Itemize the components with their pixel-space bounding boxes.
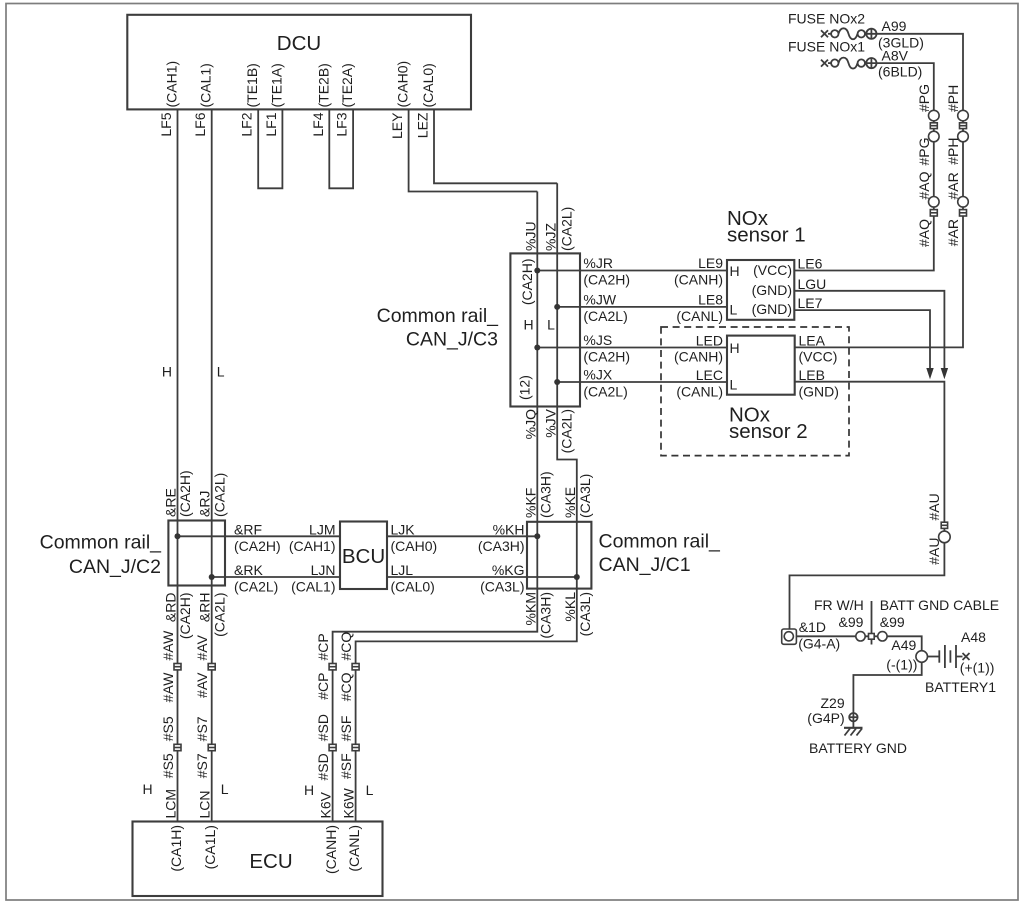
svg-text:%JX: %JX	[583, 367, 612, 383]
svg-text:(CA2H): (CA2H)	[583, 349, 630, 365]
svg-text:#PH: #PH	[945, 85, 961, 112]
svg-text:%JQ: %JQ	[523, 409, 539, 439]
svg-text:%KE: %KE	[562, 487, 578, 518]
pin K6W label	[341, 787, 363, 871]
svg-text:FUSE NOx1: FUSE NOx1	[788, 39, 865, 55]
svg-text:sensor 2: sensor 2	[729, 420, 808, 443]
svg-text:H: H	[142, 781, 152, 797]
svg-text:L: L	[217, 364, 225, 380]
svg-text:(CA2L): (CA2L)	[559, 207, 575, 251]
svg-text:sensor 1: sensor 1	[727, 224, 806, 247]
junction dot %JS	[534, 345, 540, 351]
pin LF6 label	[192, 63, 214, 136]
svg-text:%JV: %JV	[542, 408, 558, 437]
junction dot &RK	[209, 574, 215, 580]
junction dot %JW	[554, 304, 560, 310]
svg-text:(CA1L): (CA1L)	[202, 825, 218, 869]
svg-text:L: L	[547, 317, 555, 333]
ECU box	[133, 822, 383, 897]
connector Common rail_ CAN_J/C1 box	[527, 522, 591, 589]
wire %JR row to NOx sensor 1 H	[537, 270, 727, 272]
connector #PH pair on AR column	[958, 110, 969, 142]
svg-text:#SD: #SD	[315, 753, 331, 780]
svg-text:H: H	[523, 317, 533, 333]
svg-text:Common rail_: Common rail_	[40, 532, 163, 554]
connector #AR on AR column	[958, 197, 969, 217]
svg-text:#AU: #AU	[926, 493, 942, 520]
svg-text:#CP: #CP	[315, 633, 331, 660]
svg-text:(CAH0): (CAH0)	[391, 538, 438, 554]
junction dot %JR	[534, 268, 540, 274]
junction dot %KH	[534, 533, 540, 539]
svg-text:#AV: #AV	[194, 634, 210, 660]
svg-text:CAN_J/C1: CAN_J/C1	[599, 554, 691, 576]
svg-text:#SF: #SF	[338, 753, 354, 779]
svg-text:#S5: #S5	[160, 753, 176, 778]
wire LF5/CAH1 down to ECU (H bus)	[177, 109, 179, 821]
svg-text:(G4P): (G4P)	[807, 710, 844, 726]
svg-text:#SF: #SF	[338, 716, 354, 742]
svg-text:BCU: BCU	[342, 545, 385, 568]
svg-text:L: L	[730, 377, 738, 393]
svg-text:LF6: LF6	[192, 112, 208, 136]
node A49 connector circle	[916, 651, 928, 663]
arrow head LGU	[941, 368, 948, 379]
svg-text:H: H	[730, 340, 740, 356]
connector #S7 on LCN wire	[208, 744, 215, 750]
svg-text:(CA2H): (CA2H)	[177, 470, 193, 517]
svg-text:(CA3H): (CA3H)	[537, 592, 553, 639]
wire A49 down to ground	[853, 662, 921, 713]
svg-text:(CAL0): (CAL0)	[391, 579, 435, 595]
svg-text:(CAH0): (CAH0)	[395, 61, 411, 108]
svg-text:(VCC): (VCC)	[799, 349, 838, 365]
svg-text:(CANH): (CANH)	[323, 825, 339, 874]
svg-text:%KM: %KM	[522, 592, 538, 625]
svg-text:LEA: LEA	[799, 333, 826, 349]
connector #AQ on AQ column	[929, 197, 940, 217]
connector Common rail_ CAN_J/C3 box	[510, 253, 580, 406]
svg-text:(CA2L): (CA2L)	[559, 409, 575, 453]
svg-text:(CAH1): (CAH1)	[289, 538, 336, 554]
wire LJK row BCU to C1	[387, 535, 537, 537]
svg-text:&99: &99	[839, 614, 864, 630]
svg-text:LEZ: LEZ	[415, 112, 431, 138]
pin LEZ label	[415, 63, 437, 138]
svg-text:(CANH): (CANH)	[674, 349, 723, 365]
wire %JS row to NOx sensor 2 H	[537, 347, 727, 349]
svg-text:K6V: K6V	[318, 791, 334, 818]
wire &1D to battery branch	[796, 636, 921, 651]
svg-text:(CA2H): (CA2H)	[519, 259, 535, 306]
pin LF5 label	[158, 61, 180, 137]
svg-text:#AR: #AR	[945, 172, 961, 199]
svg-text:#AW: #AW	[160, 672, 176, 703]
svg-text:K6W: K6W	[341, 787, 357, 818]
wire %JW row to NOx sensor 1 L	[557, 306, 727, 308]
svg-text:DCU: DCU	[277, 32, 321, 55]
pin LF4 label	[310, 63, 332, 136]
wire A8V fuse to #PG/#AQ column then LE6(VCC) of NOx sensor 1	[794, 63, 934, 270]
svg-text:#PG: #PG	[916, 138, 932, 166]
svg-text:#S5: #S5	[160, 716, 176, 741]
svg-text:(VCC): (VCC)	[753, 262, 792, 278]
svg-text:(CA3H): (CA3H)	[537, 471, 553, 518]
svg-text:#AU: #AU	[926, 538, 942, 565]
connector &1D (G4-A)	[782, 629, 797, 644]
svg-text:(CA2L): (CA2L)	[583, 384, 627, 400]
svg-text:(GND): (GND)	[752, 301, 792, 317]
pin LEY label	[389, 61, 411, 139]
connector #AU	[939, 522, 951, 543]
svg-text:&99: &99	[880, 614, 905, 630]
svg-text:#CP: #CP	[315, 673, 331, 700]
svg-text:A48: A48	[961, 629, 986, 645]
svg-text:LE9: LE9	[698, 255, 723, 271]
svg-text:LCM: LCM	[163, 789, 179, 819]
svg-text:(CAL1): (CAL1)	[198, 63, 214, 107]
svg-text:#AQ: #AQ	[916, 171, 932, 199]
svg-text:(CA1H): (CA1H)	[168, 825, 184, 872]
svg-text:ECU: ECU	[249, 850, 292, 873]
svg-text:(CANH): (CANH)	[674, 272, 723, 288]
connector #S5 on LCM wire	[174, 744, 181, 750]
svg-text:(CA2L): (CA2L)	[583, 308, 627, 324]
svg-text:&RK: &RK	[234, 562, 263, 578]
svg-text:#S7: #S7	[194, 753, 210, 778]
pin LCM label	[163, 789, 185, 872]
svg-text:LJK: LJK	[391, 522, 416, 538]
svg-text:FR W/H: FR W/H	[814, 597, 864, 613]
svg-text:#CQ: #CQ	[338, 632, 354, 661]
wire &RF row C2 to BCU	[178, 535, 341, 537]
wire LGU(GND) to arrow at LEB wire	[794, 291, 944, 369]
svg-text:#AR: #AR	[945, 219, 961, 246]
svg-text:(CA3L): (CA3L)	[577, 474, 593, 518]
svg-text:(CAL0): (CAL0)	[420, 63, 436, 107]
fuse NOx2 symbol	[821, 28, 877, 39]
svg-text:(TE2A): (TE2A)	[339, 63, 355, 107]
wire LE7(GND) to arrow at LEB wire	[794, 310, 930, 368]
svg-text:H: H	[730, 263, 740, 279]
junction dot %KG	[574, 574, 580, 580]
svg-text:(-(1)): (-(1))	[886, 657, 917, 673]
svg-text:LF3: LF3	[334, 112, 350, 136]
wire A99 fuse to #PH/#AR column then LEA(VCC) of NOx sensor 2	[795, 34, 963, 348]
connector #CQ on K6W wire	[352, 664, 359, 670]
connector #AV on LCN wire	[208, 664, 215, 670]
svg-text:BATT GND CABLE: BATT GND CABLE	[880, 597, 999, 613]
svg-text:LF1: LF1	[263, 112, 279, 136]
svg-text:Z29: Z29	[821, 695, 845, 711]
svg-text:FUSE NOx2: FUSE NOx2	[788, 11, 865, 27]
svg-text:(TE1B): (TE1B)	[244, 63, 260, 107]
svg-text:(CAH1): (CAH1)	[164, 61, 180, 108]
svg-text:%JW: %JW	[583, 292, 616, 308]
svg-text:Common rail_: Common rail_	[377, 305, 500, 327]
svg-text:#SD: #SD	[315, 714, 331, 741]
wire LJL row BCU to C1	[387, 576, 577, 578]
svg-text:&RJ: &RJ	[197, 491, 213, 517]
svg-text:A8V: A8V	[882, 48, 909, 64]
svg-text:LF4: LF4	[310, 112, 326, 136]
svg-text:(CA3L): (CA3L)	[480, 579, 524, 595]
svg-text:#AV: #AV	[194, 672, 210, 698]
junction dot %JX	[554, 379, 560, 385]
wire LF6/CAL1 down to ECU (L bus)	[211, 109, 213, 821]
NOx sensor 2 dashed enclosure	[661, 327, 849, 456]
svg-text:(CA2H): (CA2H)	[234, 538, 281, 554]
NOx sensor 1 box	[727, 260, 794, 320]
battery BATTERY1 symbol	[928, 645, 970, 668]
svg-text:(CA2L): (CA2L)	[234, 579, 278, 595]
connector #SD on K6V wire	[329, 744, 336, 750]
svg-text:BATTERY GND: BATTERY GND	[809, 740, 907, 756]
connector Common rail_ CAN_J/C2 box	[168, 521, 225, 586]
connector #PG pair on AQ column	[929, 110, 940, 142]
pin LCN label	[197, 790, 219, 869]
svg-text:&RD: &RD	[163, 593, 179, 623]
svg-text:LE7: LE7	[798, 295, 823, 311]
svg-text:A49: A49	[891, 637, 916, 653]
wire CAN L bus through C3 (jog) and C1 to ECU K6W	[356, 183, 577, 821]
svg-text:L: L	[221, 781, 229, 797]
svg-text:(CA2H): (CA2H)	[177, 593, 193, 640]
pin LF3 label	[334, 63, 356, 136]
junction dot &RF	[175, 533, 181, 539]
svg-text:&RE: &RE	[163, 488, 179, 517]
svg-text:LEB: LEB	[799, 367, 825, 383]
connector #AW on LCM wire	[174, 664, 181, 670]
wire LEB(GND) right, down through #AU to &1D	[790, 382, 945, 629]
connector #SF on K6W wire	[352, 744, 359, 750]
svg-text:(CA3H): (CA3H)	[478, 538, 525, 554]
svg-text:%JS: %JS	[583, 332, 612, 348]
svg-text:LJM: LJM	[309, 522, 335, 538]
svg-text:%JR: %JR	[583, 255, 613, 271]
svg-text:LE6: LE6	[798, 256, 823, 272]
svg-text:H: H	[162, 364, 172, 380]
NOx sensor 2 inner box	[727, 336, 795, 395]
svg-text:LED: LED	[696, 333, 723, 349]
svg-text:(CA2L): (CA2L)	[211, 593, 227, 637]
wire %JX row to NOx sensor 2 L	[557, 381, 727, 383]
svg-text:#S7: #S7	[194, 716, 210, 741]
fuse NOx1 symbol	[821, 58, 877, 69]
arrow head LE7	[926, 368, 933, 379]
svg-text:%KG: %KG	[492, 562, 525, 578]
connector #CP on K6V wire	[329, 664, 336, 670]
svg-text:(CANL): (CANL)	[346, 825, 362, 872]
wire LF2-LF1 terminator loop	[258, 109, 282, 188]
svg-text:LF5: LF5	[158, 112, 174, 136]
svg-text:%JZ: %JZ	[542, 223, 558, 251]
svg-text:%JU: %JU	[523, 221, 539, 251]
harness divider line	[871, 601, 873, 645]
svg-text:LEC: LEC	[696, 367, 723, 383]
svg-text:(GND): (GND)	[752, 282, 792, 298]
svg-text:%KL: %KL	[562, 592, 578, 622]
svg-text:(CAL1): (CAL1)	[291, 579, 335, 595]
svg-text:#CQ: #CQ	[338, 672, 354, 701]
svg-text:#PH: #PH	[945, 138, 961, 165]
svg-text:(CA3L): (CA3L)	[577, 592, 593, 636]
svg-text:L: L	[730, 302, 738, 318]
gateway BCU box	[340, 522, 387, 590]
svg-text:A99: A99	[882, 18, 907, 34]
svg-text:CAN_J/C2: CAN_J/C2	[69, 556, 161, 578]
svg-text:(CANL): (CANL)	[676, 384, 723, 400]
wire &RK row C2 to BCU	[212, 576, 340, 578]
svg-text:LCN: LCN	[197, 790, 213, 818]
svg-text:(G4-A): (G4-A)	[798, 636, 840, 652]
svg-text:(CA2H): (CA2H)	[583, 272, 630, 288]
svg-text:LJN: LJN	[311, 562, 336, 578]
svg-text:&RF: &RF	[234, 522, 262, 538]
svg-text:H: H	[304, 782, 314, 798]
wire LF4-LF3 terminator loop	[329, 109, 353, 188]
pin LF2 label	[239, 63, 261, 136]
pin K6V label	[318, 791, 340, 874]
svg-text:(CA2L): (CA2L)	[211, 473, 227, 517]
svg-text:(12): (12)	[517, 375, 533, 400]
wire LEZ/CAL0 to CAN_J/C3 L	[434, 109, 557, 183]
svg-text:#AQ: #AQ	[916, 219, 932, 247]
svg-text:%KF: %KF	[522, 488, 538, 518]
svg-text:&RH: &RH	[197, 593, 213, 623]
svg-text:LJL: LJL	[391, 562, 414, 578]
wire CAN H bus through C3 and C1 to ECU K6V	[333, 192, 538, 822]
connector &99 pair	[856, 632, 887, 641]
svg-text:LF2: LF2	[239, 112, 255, 136]
svg-text:BATTERY1: BATTERY1	[925, 679, 996, 695]
svg-text:(6BLD): (6BLD)	[878, 64, 922, 80]
svg-text:LE8: LE8	[698, 292, 723, 308]
ground Z29 (G4P)	[844, 713, 863, 736]
svg-text:#AW: #AW	[160, 630, 176, 661]
svg-text:%KH: %KH	[493, 522, 525, 538]
svg-text:(+(1)): (+(1))	[960, 660, 995, 676]
svg-text:&1D: &1D	[799, 619, 826, 635]
DCU box	[127, 15, 471, 110]
svg-text:CAN_J/C3: CAN_J/C3	[406, 329, 498, 351]
svg-text:L: L	[366, 782, 374, 798]
pin LF1 label	[263, 63, 285, 136]
svg-text:Common rail_: Common rail_	[599, 531, 722, 553]
svg-text:(CANL): (CANL)	[676, 308, 723, 324]
svg-text:LGU: LGU	[798, 276, 827, 292]
svg-text:(TE1A): (TE1A)	[268, 63, 284, 107]
svg-text:(TE2B): (TE2B)	[315, 63, 331, 107]
svg-text:(GND): (GND)	[799, 384, 839, 400]
wire LEY/CAH0 to CAN_J/C3 H	[409, 109, 538, 191]
svg-text:LEY: LEY	[389, 112, 405, 139]
svg-text:#PG: #PG	[916, 84, 932, 112]
